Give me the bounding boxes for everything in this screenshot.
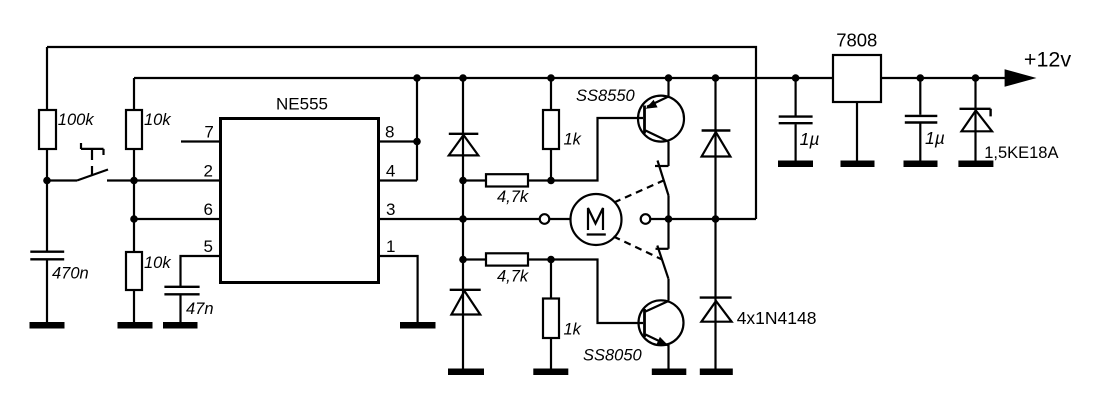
node diode column upper 4,7k (459, 177, 467, 185)
svg-text:1k: 1k (564, 131, 582, 149)
wire lower 1k leads (550, 260, 552, 370)
node rail left diode column (459, 74, 467, 82)
diode D5 TVS 1,5KE18A (960, 109, 993, 132)
svg-text:4x1N4148: 4x1N4148 (737, 308, 817, 328)
transistor Q2 base bar (643, 309, 646, 337)
wire pin8 pin4 tie to rail (380, 78, 417, 181)
resistor R7 1k lower (543, 299, 559, 339)
switch S1 pushbutton blade (77, 170, 108, 181)
wire pin5 to 47n (181, 256, 220, 286)
wire upper 4,7k leads (463, 179, 551, 181)
wire motor left gap (549, 218, 570, 220)
capacitor C2 47n (164, 287, 199, 295)
motor M1 right terminal (641, 214, 651, 224)
value label 4,7k lower (497, 267, 529, 285)
transistor Q1 collector (646, 131, 669, 142)
diode D2 lower left 1N4148 (450, 290, 481, 315)
regulator U2 7808 box (833, 55, 881, 102)
svg-text:3: 3 (386, 200, 395, 219)
wire left diode column (462, 78, 464, 369)
ground 1u left (778, 161, 813, 168)
wire contact common to node (667, 196, 669, 301)
chip name NE555 (276, 95, 328, 114)
contact K1 lower fixed tick (656, 248, 669, 250)
ground 10k column (118, 322, 153, 329)
node rail 1u right (917, 74, 925, 82)
pin number 3 (386, 200, 395, 219)
node right diode column motor line (712, 215, 720, 223)
svg-text:4: 4 (386, 162, 395, 181)
wire 47n to ground (179, 295, 181, 324)
svg-text:470n: 470n (52, 265, 89, 283)
wire 100k bottom to 470n (46, 149, 48, 251)
wire 100k top lead (46, 47, 48, 110)
wire 470n to ground (46, 259, 48, 323)
resistor R5 4,7k lower (486, 253, 528, 265)
resistor R6 1k upper (543, 110, 559, 149)
svg-text:+12v: +12v (1024, 48, 1071, 72)
pin number 1 (386, 237, 395, 256)
svg-text:1,5KE18A: 1,5KE18A (984, 144, 1058, 162)
wire lower base jog (551, 260, 643, 324)
svg-text:NE555: NE555 (276, 95, 328, 114)
node pin8 pin4 (413, 138, 421, 146)
node rail 1k column (547, 74, 555, 82)
ground 7808 (841, 161, 875, 168)
ground pin1 (400, 322, 436, 329)
svg-text:10k: 10k (144, 254, 171, 272)
node diode column lower 4,7k (459, 256, 467, 264)
ground lower 1k (533, 369, 568, 376)
resistor R4 4,7k upper (486, 174, 528, 186)
net label +12v (1024, 48, 1071, 72)
svg-text:47n: 47n (186, 300, 214, 318)
ground TVS (958, 161, 993, 168)
node rail right diode column (712, 74, 720, 82)
diode D1 upper left 1N4148 (449, 134, 479, 156)
capacitor C1 470n (30, 252, 64, 260)
part label 7808 (836, 29, 877, 50)
ground right diode column (700, 369, 733, 376)
value label 10k lower (144, 254, 171, 272)
contact K1 upper blade (658, 161, 669, 196)
node upper 1k 4,7k junction (547, 177, 555, 185)
pin number 5 (204, 237, 213, 256)
wire +12v supply rail (134, 77, 1005, 79)
svg-text:SS8550: SS8550 (576, 87, 636, 105)
svg-text:2: 2 (204, 162, 213, 181)
ground Q2 emitter (652, 369, 687, 376)
ground left 470n (30, 322, 65, 329)
switch S1 pushbutton actuator (81, 143, 104, 176)
pin number 2 (204, 162, 213, 181)
pin number 7 (204, 123, 213, 142)
op-amp U1 NE555 box (221, 119, 379, 283)
svg-text:10k: 10k (144, 111, 171, 129)
pin number 6 (204, 200, 213, 219)
svg-text:1µ: 1µ (800, 129, 820, 149)
wire Q2 emitter to ground (667, 345, 669, 369)
wire pin3 to motor left terminal (380, 218, 540, 220)
svg-text:8: 8 (385, 123, 394, 142)
wire lower 4,7k leads (463, 258, 551, 260)
svg-text:1: 1 (386, 237, 395, 256)
part label 4x1N4148 (737, 308, 817, 328)
motor M1 left terminal (540, 214, 550, 224)
transistor Q1 base bar (643, 106, 646, 134)
wire 7808 ground leg (856, 102, 858, 161)
ground left diode column (448, 369, 484, 376)
svg-text:4,7k: 4,7k (497, 267, 529, 285)
value label 10k upper (144, 111, 171, 129)
wire 1u left leads (794, 78, 796, 161)
value label SS8550 (576, 87, 636, 105)
ground 47n (163, 322, 198, 329)
capacitor C4 1u right (905, 116, 938, 123)
svg-text:5: 5 (204, 237, 213, 256)
wire 1u right leads (919, 78, 921, 161)
node motor right contact common (665, 215, 673, 223)
svg-text:1k: 1k (564, 320, 582, 338)
value label 1k upper (564, 131, 582, 149)
value label 470n (52, 265, 89, 283)
node switch left (43, 177, 51, 185)
wire switch right (107, 179, 134, 181)
svg-text:4,7k: 4,7k (497, 188, 529, 206)
motor M1 body (571, 194, 622, 245)
transistor Q2 emitter arrow (656, 337, 668, 346)
wire lower 10k to ground (133, 290, 135, 323)
contact K1 lower blade (657, 246, 668, 279)
wire right diode column (714, 78, 716, 369)
wire top feedback line from 100k top to motor right node (47, 47, 756, 219)
motor M1 underline (587, 233, 606, 235)
power arrow +12v (1005, 69, 1037, 87)
part label 1,5KE18A (984, 144, 1058, 162)
wire 10k bottom through nodes to lower 10k (133, 149, 135, 252)
wire motor right to corner (650, 218, 756, 220)
value label 1u right (925, 128, 945, 148)
value label 1k lower (564, 320, 582, 338)
transistor Q1 SS8550 body (638, 96, 684, 142)
pin number 8 (385, 123, 394, 142)
diode D3 upper right 1N4148 (702, 131, 731, 157)
value label 47n (186, 300, 214, 318)
resistor R2 10k upper (126, 110, 142, 149)
contact K1 upper fixed tick (655, 165, 669, 167)
wire upper base jog (551, 118, 643, 181)
mechanical link lower dashed (614, 237, 663, 260)
transistor Q2 SS8050 body (639, 300, 684, 345)
wire Q1 emitter to rail (667, 78, 669, 97)
svg-text:SS8050: SS8050 (583, 347, 643, 365)
transistor Q2 emitter (646, 335, 669, 346)
svg-text:7: 7 (204, 123, 213, 142)
wire pin6 (134, 218, 219, 220)
svg-text:6: 6 (204, 200, 213, 219)
value label 100k (58, 111, 95, 129)
node switch right pin2 (130, 177, 138, 185)
value label 1u left (800, 129, 820, 149)
wire pin7 stub (181, 140, 219, 142)
value label SS8050 (583, 347, 643, 365)
wire pin2 (134, 179, 219, 181)
node rail TVS (972, 74, 980, 82)
svg-text:7808: 7808 (836, 29, 877, 50)
wire 10k top lead (133, 78, 135, 110)
capacitor C3 1u left (779, 117, 813, 124)
node pin6 10k (130, 215, 138, 223)
node lower 1k 4,7k junction (547, 256, 555, 264)
ground 1u right (904, 161, 938, 168)
svg-text:100k: 100k (58, 111, 95, 129)
wire pin1 to ground (380, 256, 418, 323)
motor M1 letter M (588, 208, 603, 230)
resistor R3 10k lower (126, 252, 142, 290)
wire TVS leads (974, 78, 976, 161)
diode D4 lower right 1N4148 (700, 298, 732, 322)
pin number 4 (386, 162, 395, 181)
value label 4,7k upper (497, 188, 529, 206)
transistor Q1 emitter arrow (646, 100, 658, 109)
resistor R1 100k (39, 110, 56, 149)
node rail 1u left (792, 74, 800, 82)
wire Q1 collector to upper contact (667, 142, 669, 167)
wire upper 1k leads (550, 78, 552, 181)
transistor Q1 emitter (647, 97, 669, 107)
node diode column pin3 (459, 215, 467, 223)
svg-text:1µ: 1µ (925, 128, 945, 148)
transistor Q2 collector (646, 301, 669, 312)
wire switch left (47, 179, 77, 181)
node rail pin8 column (413, 74, 421, 82)
node rail Q1 emitter (665, 74, 673, 82)
mechanical link upper dashed (614, 181, 664, 203)
